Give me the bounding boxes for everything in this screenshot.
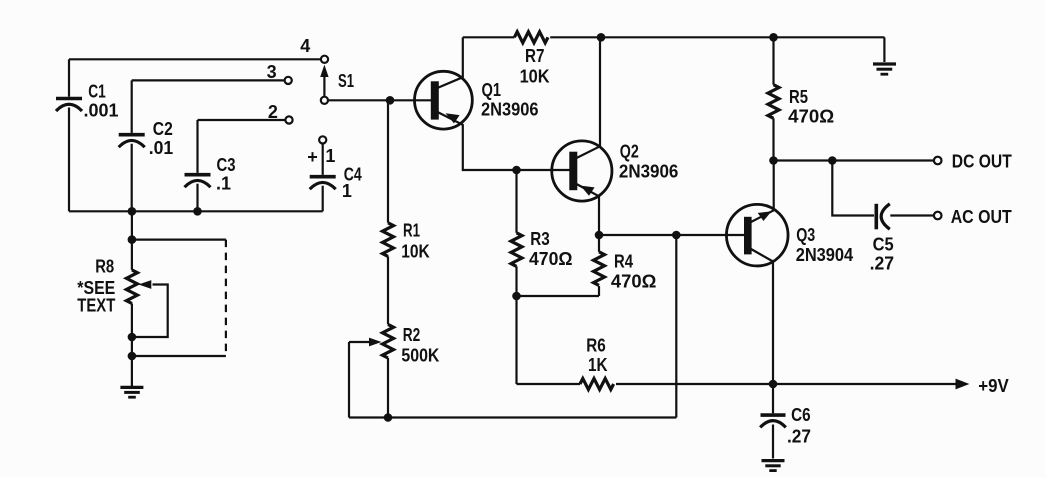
svg-text:1: 1 <box>325 146 335 166</box>
svg-text:R3: R3 <box>530 229 550 249</box>
svg-text:C3: C3 <box>217 155 236 175</box>
svg-text:R6: R6 <box>586 336 606 356</box>
svg-text:Q2: Q2 <box>620 142 639 162</box>
svg-text:S1: S1 <box>338 71 354 91</box>
svg-text:C6: C6 <box>791 405 811 425</box>
svg-text:2N3906: 2N3906 <box>619 161 679 181</box>
svg-text:.27: .27 <box>870 253 895 273</box>
svg-text:R4: R4 <box>614 252 633 272</box>
svg-text:R2: R2 <box>403 325 421 345</box>
svg-text:10K: 10K <box>401 242 430 262</box>
svg-text:Q1: Q1 <box>482 80 502 100</box>
svg-text:R1: R1 <box>403 220 420 240</box>
svg-text:470Ω: 470Ω <box>611 272 657 292</box>
svg-text:C5: C5 <box>873 235 894 255</box>
svg-text:1: 1 <box>342 181 352 201</box>
svg-text:2: 2 <box>268 102 278 122</box>
svg-text:2N3906: 2N3906 <box>481 100 539 120</box>
svg-text:+: + <box>307 147 318 167</box>
svg-text:Q3: Q3 <box>796 225 815 245</box>
svg-text:4: 4 <box>300 36 310 56</box>
svg-text:10K: 10K <box>520 67 550 87</box>
svg-text:2N3904: 2N3904 <box>796 245 854 265</box>
svg-text:.27: .27 <box>787 426 811 446</box>
svg-text:R8: R8 <box>95 257 114 277</box>
svg-text:+9V: +9V <box>978 376 1009 396</box>
svg-text:AC OUT: AC OUT <box>951 207 1012 227</box>
svg-text:1K: 1K <box>588 355 608 375</box>
svg-text:470Ω: 470Ω <box>788 107 834 127</box>
svg-text:TEXT: TEXT <box>77 296 115 316</box>
svg-text:500K: 500K <box>401 345 439 365</box>
svg-text:.001: .001 <box>84 101 119 121</box>
svg-text:R7: R7 <box>525 46 545 66</box>
svg-text:.01: .01 <box>149 138 174 158</box>
svg-text:.1: .1 <box>216 174 231 194</box>
svg-text:C1: C1 <box>88 82 106 102</box>
svg-text:R5: R5 <box>789 87 808 107</box>
svg-text:DC OUT: DC OUT <box>952 151 1012 171</box>
svg-text:470Ω: 470Ω <box>529 249 573 269</box>
svg-text:3: 3 <box>267 62 277 82</box>
svg-text:C2: C2 <box>153 119 173 139</box>
